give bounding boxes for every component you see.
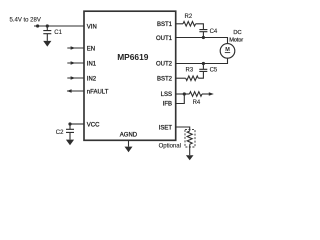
node OUT2/C5 junction dot bbox=[202, 62, 205, 65]
ground AGND symbol bbox=[125, 140, 133, 152]
resistor R5 optional (vertical, in dashed box) bbox=[159, 130, 195, 150]
wire EN input with arrow bbox=[67, 46, 84, 50]
svg-text:AGND: AGND bbox=[120, 133, 138, 139]
svg-text:R3: R3 bbox=[186, 68, 194, 74]
motor M1 DC Motor bbox=[220, 30, 243, 58]
svg-text:ISET: ISET bbox=[159, 125, 173, 131]
wire OUT1 to motor bbox=[175, 38, 228, 44]
capacitor C1 bbox=[43, 26, 62, 41]
wire ISET bbox=[175, 127, 190, 131]
svg-text:BST1: BST1 bbox=[157, 22, 173, 28]
wire IN1 input with arrow bbox=[67, 61, 84, 65]
node supply terminal dot bbox=[36, 24, 39, 27]
resistor R4 bbox=[189, 92, 202, 107]
IC U1 MP6619 motor driver body bbox=[84, 11, 176, 140]
ground under C1 bbox=[43, 41, 51, 47]
ground under R5 bbox=[186, 155, 194, 160]
wire OUT2 to motor bbox=[175, 58, 228, 64]
svg-text:C4: C4 bbox=[210, 29, 218, 35]
svg-text:MP6619: MP6619 bbox=[117, 52, 149, 62]
wire VIN supply bbox=[34, 25, 84, 27]
resistor R2 bbox=[183, 14, 196, 26]
wire IN2 input with arrow bbox=[67, 76, 84, 80]
svg-text:R4: R4 bbox=[193, 100, 201, 106]
svg-text:DC: DC bbox=[233, 30, 241, 36]
ground under C2 bbox=[66, 140, 74, 146]
resistor R3 bbox=[186, 68, 199, 81]
svg-text:C5: C5 bbox=[210, 68, 218, 74]
capacitor C2 bbox=[56, 124, 74, 140]
svg-text:Motor: Motor bbox=[229, 38, 243, 44]
svg-text:IN2: IN2 bbox=[87, 76, 97, 82]
capacitor C5 bbox=[198, 64, 218, 79]
svg-text:C1: C1 bbox=[54, 30, 62, 36]
wire R4 output arrow bbox=[202, 92, 214, 96]
wire nFAULT output with arrow bbox=[67, 89, 84, 93]
wire R3 to BST2 bbox=[175, 77, 186, 79]
wire BST1 bbox=[175, 23, 183, 25]
node C2 junction dot bbox=[68, 122, 71, 125]
svg-text:BST2: BST2 bbox=[157, 76, 173, 82]
wire VCC bbox=[70, 123, 84, 125]
node LSS/IFB junction dot bbox=[183, 92, 186, 95]
wire R5 to ground bbox=[189, 144, 191, 155]
wire R2 to C4 corner bbox=[196, 24, 204, 30]
svg-text:OUT2: OUT2 bbox=[156, 62, 173, 68]
svg-text:nFAULT: nFAULT bbox=[87, 89, 109, 95]
svg-text:5.4V to 28V: 5.4V to 28V bbox=[10, 18, 41, 24]
capacitor C4 bbox=[199, 29, 218, 37]
wire LSS bbox=[175, 93, 189, 95]
node OUT1/C4 junction dot bbox=[202, 36, 205, 39]
svg-text:IN1: IN1 bbox=[87, 61, 97, 67]
svg-text:OUT1: OUT1 bbox=[156, 36, 173, 42]
svg-text:VCC: VCC bbox=[87, 122, 100, 128]
svg-text:EN: EN bbox=[87, 46, 95, 52]
wire IFB up to LSS bbox=[175, 94, 184, 104]
svg-text:LSS: LSS bbox=[161, 92, 172, 98]
svg-text:VIN: VIN bbox=[87, 24, 97, 30]
svg-text:IFB: IFB bbox=[163, 102, 172, 108]
svg-text:C2: C2 bbox=[56, 130, 64, 136]
svg-text:Optional: Optional bbox=[159, 144, 181, 150]
svg-text:R2: R2 bbox=[185, 14, 193, 20]
node C1 junction dot bbox=[46, 24, 49, 27]
